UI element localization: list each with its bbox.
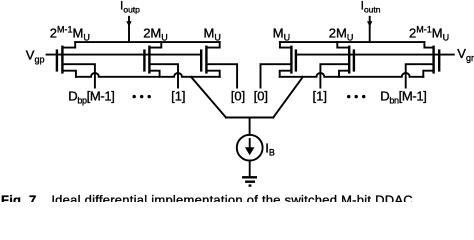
IB arrowhead	[245, 147, 255, 155]
transistor M5 2Mu right : drain wire	[337, 42, 349, 48]
svg-text:[1]: [1]	[171, 88, 185, 103]
ground	[242, 177, 257, 185]
wire: left output rail	[75, 41, 220, 43]
wire: common source bus right with hop crossings	[280, 73, 424, 77]
transistor M1 2^(M-1)Mu left : drain wire	[62, 42, 75, 48]
transistor M6 2^(M-1)Mu right : drain wire	[424, 42, 433, 48]
transistor M3 : source wire	[206, 71, 219, 77]
wire: Vgn gate bus (right half)	[296, 54, 454, 56]
svg-text:[0]: [0]	[254, 88, 268, 103]
transistor M4 channel bar	[290, 46, 292, 74]
transistor M3 Mu left : drain wire	[206, 42, 219, 48]
svg-text:Fig. 7.Ideal differential impl: Fig. 7.Ideal differential implementation…	[1, 193, 417, 203]
transistor M3 : bit wire to [0] left	[206, 64, 237, 87]
Ioutn arrowhead	[367, 21, 372, 27]
transistor M4 Mu right : drain wire	[280, 42, 292, 48]
transistor M5 : source wire	[339, 71, 349, 77]
transistor M1 gate bar	[56, 49, 58, 71]
transistor M2 : bit wire to [1]	[149, 64, 178, 87]
wire: current source to ground	[249, 161, 251, 176]
svg-text:[0]: [0]	[231, 88, 245, 103]
Ioutp arrowhead	[126, 21, 131, 27]
current source IB circle	[237, 135, 263, 161]
transistor M5 channel bar	[348, 46, 350, 74]
wire: common source bus left with hop crossings	[76, 73, 220, 77]
wire: Vgp gate bus (left half)	[47, 54, 202, 56]
wire: right output rail	[280, 41, 425, 43]
transistor M4 : bit wire to [0] right	[261, 64, 292, 87]
transistor M2 2Mu left : drain wire	[149, 42, 161, 48]
svg-text:Dbn[M-1]: Dbn[M-1]	[380, 88, 426, 105]
transistor M1 : bit wire to Dbp[M-1]	[62, 64, 95, 87]
wire: tail node horizontal	[226, 117, 273, 119]
transistor M1 channel bar	[61, 46, 63, 74]
svg-text:Dbp[M-1]: Dbp[M-1]	[68, 88, 114, 105]
transistor M6 : source wire	[423, 71, 433, 77]
transistor M4 : source wire	[280, 71, 292, 77]
wire: Ioutn arrow stem	[369, 17, 371, 42]
transistor M5 : bit wire to [1] right	[320, 64, 349, 87]
transistor M6 channel bar	[432, 46, 434, 74]
transistor M1 : source wire	[62, 71, 76, 77]
label dots right	[347, 95, 365, 98]
transistor M6 : bit wire to Dbn[M-1]	[406, 64, 434, 87]
label dots left	[133, 95, 151, 98]
transistor M4 gate bar	[295, 49, 297, 71]
svg-text:[1]: [1]	[313, 88, 327, 103]
transistor M6 gate bar	[438, 49, 440, 71]
wire: Ioutp arrow stem	[128, 17, 130, 42]
transistor M2 gate bar	[143, 49, 145, 71]
transistor M3 channel bar	[205, 46, 207, 74]
transistor M2 : source wire	[149, 71, 159, 77]
wire: tail node to current source	[249, 118, 251, 135]
transistor M5 gate bar	[353, 49, 355, 71]
transistor M3 gate bar	[200, 49, 202, 71]
wire: left diagonal to tail node	[191, 77, 226, 118]
current source IB arrow stem	[249, 139, 251, 149]
wire: right diagonal to tail node	[273, 77, 303, 118]
transistor M2 channel bar	[148, 46, 150, 74]
